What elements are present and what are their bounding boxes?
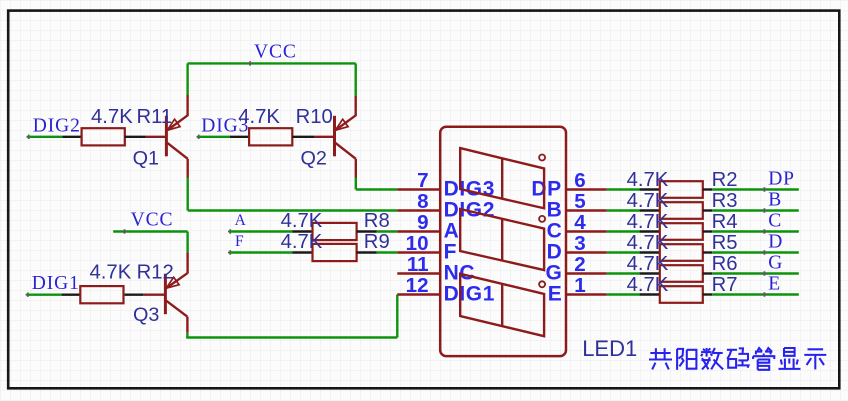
svg-text:12: 12 — [406, 274, 429, 297]
svg-text:10: 10 — [406, 232, 429, 255]
svg-text:A: A — [444, 219, 460, 242]
svg-text:C: C — [768, 210, 782, 231]
svg-text:R4: R4 — [712, 211, 738, 233]
svg-text:E: E — [548, 282, 562, 305]
svg-text:6: 6 — [574, 169, 585, 192]
svg-text:DIG2: DIG2 — [33, 116, 81, 137]
svg-text:4.7K: 4.7K — [627, 190, 669, 212]
svg-text:DIG3: DIG3 — [444, 177, 495, 200]
svg-text:R12: R12 — [137, 262, 174, 284]
svg-text:3: 3 — [574, 232, 585, 255]
svg-text:4.7K: 4.7K — [627, 274, 669, 296]
svg-text:E: E — [768, 273, 781, 294]
svg-text:8: 8 — [417, 190, 428, 213]
svg-text:G: G — [768, 252, 783, 273]
svg-text:5: 5 — [574, 190, 585, 213]
svg-text:B: B — [768, 189, 782, 210]
svg-text:R7: R7 — [712, 274, 738, 296]
svg-text:DIG1: DIG1 — [32, 273, 80, 294]
svg-text:1: 1 — [574, 274, 585, 297]
svg-text:11: 11 — [407, 253, 429, 276]
svg-text:7: 7 — [417, 169, 428, 192]
svg-text:C: C — [547, 219, 562, 242]
svg-text:A: A — [235, 212, 247, 229]
svg-text:F: F — [444, 240, 457, 263]
svg-text:R10: R10 — [296, 106, 333, 128]
svg-text:DP: DP — [768, 168, 795, 189]
svg-text:4.7K: 4.7K — [281, 210, 323, 232]
svg-text:LED1: LED1 — [582, 336, 637, 361]
svg-text:4.7K: 4.7K — [627, 253, 669, 275]
svg-text:4: 4 — [574, 211, 586, 234]
svg-text:D: D — [768, 231, 783, 252]
svg-text:R8: R8 — [364, 210, 390, 232]
svg-text:R5: R5 — [712, 232, 738, 254]
svg-text:R6: R6 — [712, 253, 738, 275]
svg-text:D: D — [547, 240, 562, 263]
svg-text:4.7K: 4.7K — [627, 211, 669, 233]
svg-text:F: F — [235, 233, 244, 250]
svg-text:4.7K: 4.7K — [238, 106, 280, 128]
svg-text:4.7K: 4.7K — [91, 106, 133, 128]
svg-text:9: 9 — [417, 211, 428, 234]
svg-text:B: B — [547, 198, 562, 221]
svg-text:DP: DP — [531, 177, 561, 200]
svg-text:Q3: Q3 — [133, 304, 159, 326]
svg-text:R9: R9 — [364, 231, 390, 253]
svg-text:R2: R2 — [712, 169, 738, 191]
svg-text:VCC: VCC — [254, 42, 297, 63]
svg-text:Q2: Q2 — [301, 147, 327, 169]
svg-text:4.7K: 4.7K — [627, 232, 669, 254]
svg-text:Q1: Q1 — [133, 147, 159, 169]
svg-text:4.7K: 4.7K — [627, 169, 669, 191]
svg-text:VCC: VCC — [131, 210, 174, 231]
svg-text:R11: R11 — [137, 106, 173, 128]
svg-text:DIG2: DIG2 — [444, 198, 495, 221]
svg-text:4.7K: 4.7K — [281, 231, 323, 253]
svg-text:R3: R3 — [712, 190, 738, 212]
svg-text:2: 2 — [574, 253, 585, 276]
svg-text:DIG1: DIG1 — [444, 282, 495, 305]
svg-text:G: G — [545, 261, 561, 284]
svg-text:4.7K: 4.7K — [90, 262, 132, 284]
